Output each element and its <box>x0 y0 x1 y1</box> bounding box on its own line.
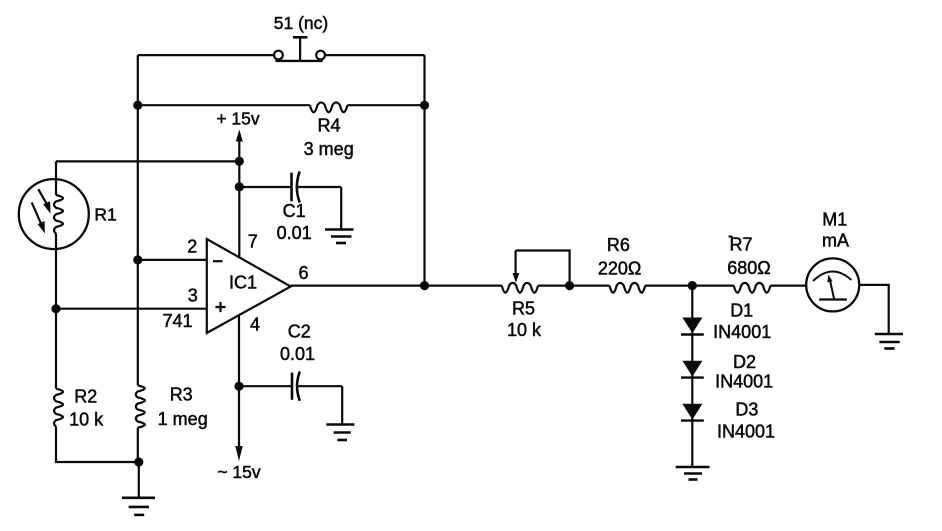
junction dot (424.5,285.6) <box>420 281 429 290</box>
svg-text:R7: R7 <box>729 235 752 255</box>
svg-text:0.01: 0.01 <box>277 223 312 243</box>
svg-text:R4: R4 <box>317 116 340 136</box>
wire op-amp pin4 down <box>238 315 240 446</box>
op-amp minus sign <box>213 260 223 262</box>
ground (meter) <box>875 334 903 349</box>
junction dot (239,161) <box>235 157 244 166</box>
svg-text:4: 4 <box>250 315 260 335</box>
junction dot (424.5,105) <box>420 101 429 110</box>
svg-text:220Ω: 220Ω <box>598 258 642 278</box>
capacitor C2 <box>292 372 300 401</box>
wire R4 row right segment <box>347 104 424 106</box>
wire C2 row <box>239 386 342 424</box>
svg-text:680Ω: 680Ω <box>727 258 771 278</box>
wire left column down to R2 <box>55 309 57 389</box>
svg-text:R6: R6 <box>607 235 630 255</box>
-15v supply arrow <box>235 446 242 461</box>
potentiometer R5 <box>502 251 570 293</box>
photoresistor R1 <box>19 161 89 308</box>
svg-text:C1: C1 <box>283 201 306 221</box>
wire R5 to R6 <box>538 285 609 287</box>
wire top-left vertical (x=138 from switch row down to R3) <box>137 55 139 385</box>
tick mark before R7 <box>729 236 733 238</box>
wire op-amp pin3 input (y=308.7) <box>56 308 207 310</box>
resistor R4 <box>310 102 348 112</box>
svg-text:IN4001: IN4001 <box>717 422 775 442</box>
wire meter right to ground <box>859 285 889 334</box>
ground (C1) <box>325 230 354 244</box>
svg-text:IN4001: IN4001 <box>713 322 771 342</box>
svg-text:10 k: 10 k <box>507 320 542 340</box>
wire switch row left segment <box>138 54 274 56</box>
svg-text:R5: R5 <box>512 299 535 319</box>
svg-text:IN4001: IN4001 <box>715 372 773 392</box>
junction dot (239,386) C2 tap <box>234 382 243 391</box>
wire op-amp output (pin6) to R5 <box>291 285 502 287</box>
svg-text:10 k: 10 k <box>69 410 104 430</box>
wire diode column <box>691 286 693 467</box>
svg-text:D1: D1 <box>730 301 753 321</box>
wire R6 to diode junction <box>645 285 692 287</box>
svg-text:IC1: IC1 <box>229 273 257 293</box>
junction dot (56,308.7) <box>51 304 60 313</box>
capacitor C1 <box>292 172 300 203</box>
wire R3 bottom to ground <box>137 428 139 462</box>
op-amp IC1 triangle <box>207 239 291 333</box>
wire op-amp pin2 input (y=260) <box>138 259 207 261</box>
svg-text:D2: D2 <box>733 352 756 372</box>
+15v supply arrow <box>236 130 243 258</box>
svg-text:3: 3 <box>188 286 198 306</box>
svg-text:51 (nc): 51 (nc) <box>274 13 328 33</box>
junction dot (138,105) <box>133 101 142 110</box>
pushbutton switch S1 <box>274 37 325 61</box>
wire right vertical (x=424.5 from switch row to output row) <box>423 55 425 286</box>
svg-text:C2: C2 <box>288 322 311 342</box>
svg-text:3 meg: 3 meg <box>304 139 354 159</box>
resistor R3 <box>136 385 145 427</box>
wire C1 row <box>239 187 341 229</box>
svg-text:R1: R1 <box>94 205 116 225</box>
wire R2 bottom to ground row <box>56 427 139 463</box>
ground (bottom left) <box>122 462 155 515</box>
junction dot (139,462) <box>134 457 143 466</box>
wire R4 row left segment <box>138 104 310 106</box>
resistor R2 <box>54 389 63 427</box>
svg-text:~ 15v: ~ 15v <box>217 462 261 482</box>
svg-text:7: 7 <box>248 231 258 251</box>
junction dot (239,187) C1 tap <box>235 182 244 191</box>
op-amp plus sign <box>215 302 225 312</box>
ground (diodes) <box>676 467 710 480</box>
junction dot (692.3,285.6) <box>688 281 697 290</box>
svg-text:R3: R3 <box>170 385 193 405</box>
svg-text:2: 2 <box>187 237 197 257</box>
resistor R7 <box>734 283 771 293</box>
svg-text:+ 15v: + 15v <box>216 109 260 129</box>
svg-text:mA: mA <box>822 231 849 251</box>
meter M1 <box>806 258 859 311</box>
wire switch row right segment <box>325 54 424 56</box>
diode D1 <box>681 318 704 335</box>
svg-text:M1: M1 <box>822 210 847 230</box>
svg-text:0.01: 0.01 <box>280 344 315 364</box>
junction dot (569.6,285.6) <box>565 281 574 290</box>
diode D2 <box>681 361 704 378</box>
svg-text:1 meg: 1 meg <box>158 409 208 429</box>
wire R1 top row (y=161) <box>56 160 239 162</box>
svg-text:R2: R2 <box>74 386 97 406</box>
svg-text:6: 6 <box>298 263 308 283</box>
resistor R6 <box>610 283 646 293</box>
svg-text:741: 741 <box>162 311 192 331</box>
diode D3 <box>681 404 704 421</box>
wire R7 to meter <box>770 285 806 287</box>
junction dot (138,260) <box>133 255 142 264</box>
svg-text:D3: D3 <box>735 400 758 420</box>
wire junction to R7 <box>692 285 734 287</box>
ground (C2) <box>326 425 354 441</box>
